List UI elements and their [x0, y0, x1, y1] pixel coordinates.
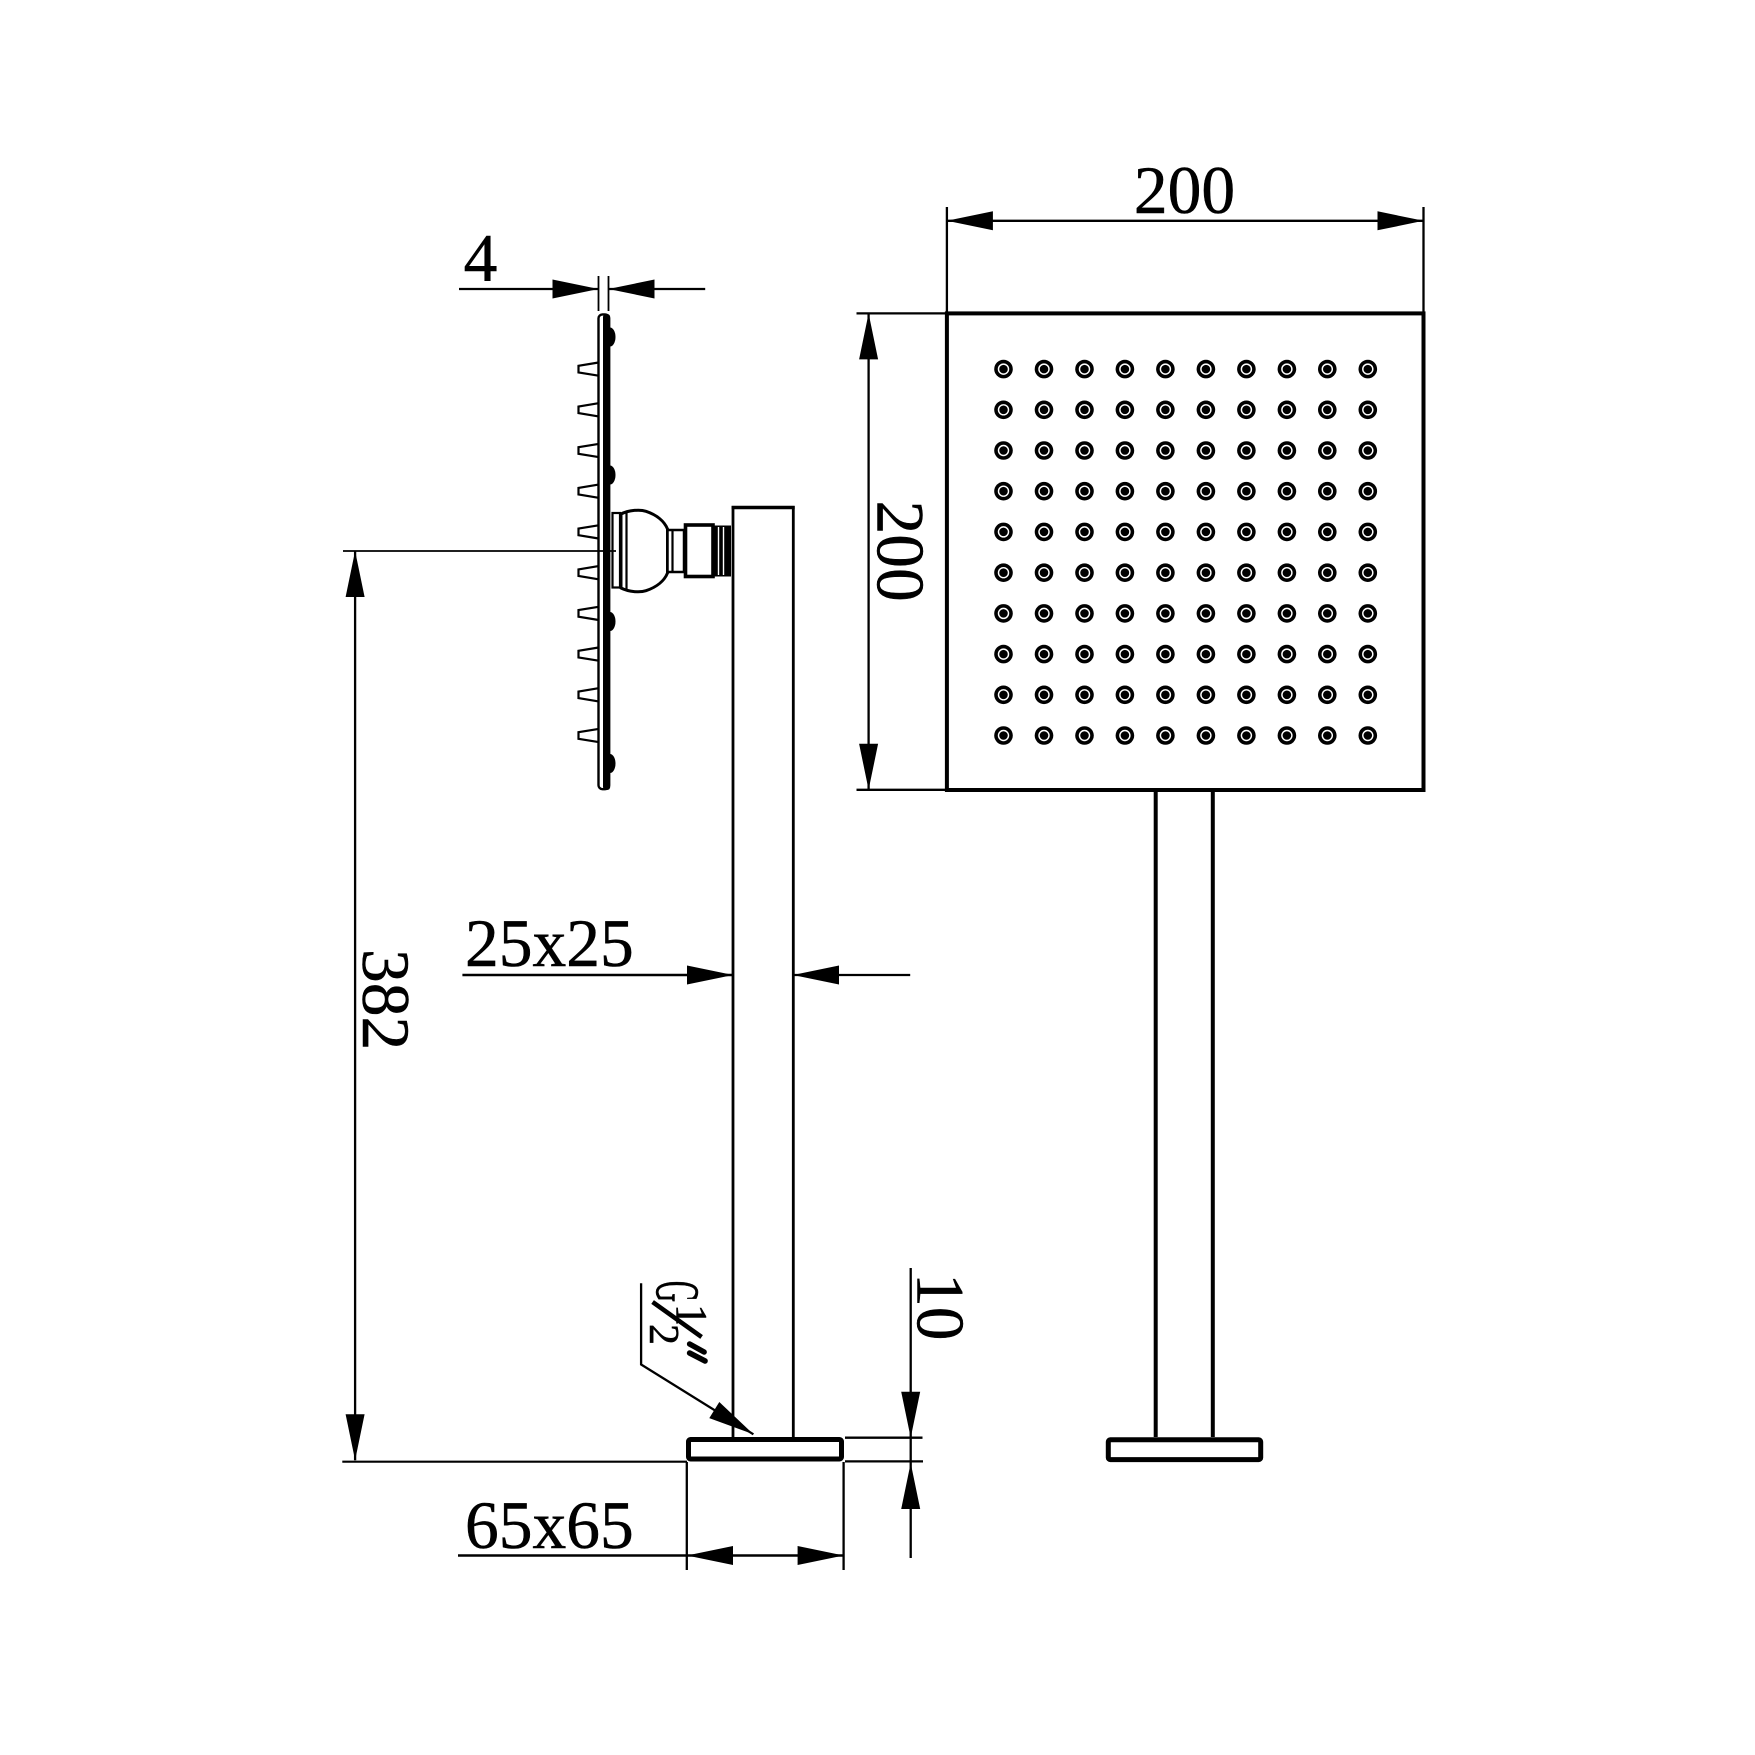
arrowhead [947, 211, 993, 230]
side view: base plate [689, 1440, 842, 1460]
dimension line [910, 1268, 912, 1558]
dimension line [947, 220, 1424, 222]
extension line left [598, 276, 600, 311]
side view: connector nut [686, 525, 714, 577]
arrowhead [687, 966, 733, 985]
side view: ball joint washer [613, 513, 621, 588]
side view: thread [714, 526, 732, 577]
arrowhead [901, 1463, 920, 1509]
arrowhead [1378, 211, 1424, 230]
baseline ground line [342, 1461, 687, 1463]
extension line right [1422, 207, 1424, 312]
dimension 10 base height [845, 1268, 978, 1558]
nozzle dot grid 10x10 [994, 360, 1377, 745]
dimension 200 width (top) [947, 153, 1424, 312]
arrowhead [859, 313, 878, 359]
leader line [641, 1283, 753, 1434]
arrowhead [901, 1392, 920, 1438]
fraction slash [653, 1302, 702, 1337]
svg-text:200: 200 [1134, 153, 1235, 228]
extension line at ball center [343, 550, 616, 552]
svg-text:25x25: 25x25 [465, 906, 634, 981]
dimension line right [793, 974, 910, 976]
svg-text:10: 10 [903, 1273, 978, 1341]
dimension 25x25 pole section [462, 906, 910, 985]
extension line right [842, 1462, 844, 1570]
G1/2 thread leader [641, 1283, 758, 1442]
dimension line right [609, 288, 706, 290]
svg-text:65x65: 65x65 [465, 1488, 634, 1563]
dimension line [354, 551, 356, 1460]
dimension line with text underline [462, 974, 733, 977]
extension line top [845, 1437, 923, 1439]
arrowhead [553, 280, 599, 299]
extension line bottom [845, 1460, 923, 1462]
arrowhead [859, 744, 878, 790]
extension line left [946, 207, 948, 312]
arrowhead [793, 966, 839, 985]
dimension line left [459, 288, 599, 290]
dimension 65x65 base [458, 1462, 844, 1570]
extension line right [608, 276, 610, 311]
G1/2 label [640, 1281, 716, 1361]
side view: shower plate [599, 314, 611, 790]
svg-text:2: 2 [640, 1324, 686, 1345]
arrowhead [346, 551, 365, 597]
side view: mounting bumps [610, 328, 616, 774]
dimension 382 height [346, 551, 423, 1460]
dimension line [867, 313, 869, 789]
front view: base plate [1108, 1440, 1260, 1460]
svg-text:G: G [643, 1281, 712, 1302]
svg-text:4: 4 [464, 221, 498, 296]
arrowhead [609, 280, 655, 299]
side view: joint collar [668, 530, 685, 572]
side view: spray nozzles [579, 363, 599, 743]
leader arrowhead [709, 1402, 758, 1442]
dimension 200 height (left of front view) [857, 313, 946, 789]
dimension 4 plate thickness [459, 221, 705, 311]
inch double prime [690, 1344, 705, 1352]
svg-text:382: 382 [348, 949, 423, 1050]
side view: stand pole [732, 506, 795, 1437]
arrowhead [687, 1546, 733, 1565]
extension line left [686, 1462, 688, 1570]
front view: stand pole [1156, 791, 1213, 1437]
side view: ball joint [621, 510, 668, 592]
svg-text:200: 200 [863, 501, 938, 602]
arrowhead [798, 1546, 844, 1565]
extension line bottom [857, 789, 946, 791]
front view: shower head square plate [947, 313, 1424, 790]
extension line top [857, 312, 946, 314]
arrowhead [346, 1414, 365, 1460]
dimension line with text underline [458, 1554, 844, 1556]
